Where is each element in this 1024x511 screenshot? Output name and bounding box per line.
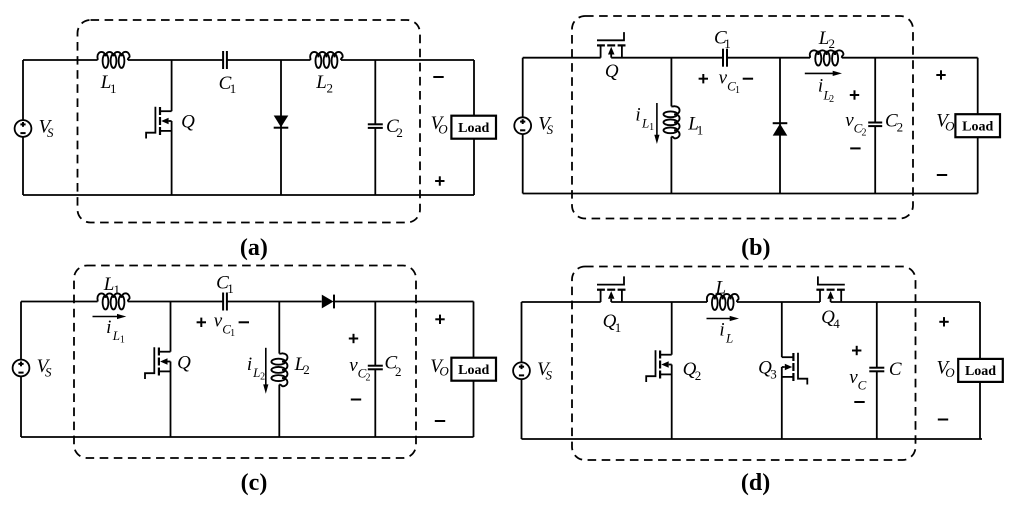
label VO (c) bbox=[430, 356, 449, 379]
label vC2 plus (b) bbox=[850, 94, 859, 96]
svg-text:1: 1 bbox=[120, 335, 125, 346]
output plus sign (a) bbox=[435, 180, 444, 182]
svg-text:1: 1 bbox=[649, 122, 654, 133]
label Q3 (d) bbox=[758, 357, 777, 381]
svg-text:i: i bbox=[719, 319, 724, 340]
bottom rail (d) bbox=[522, 438, 983, 440]
svg-text:2: 2 bbox=[366, 372, 371, 383]
bottom rail (a) bbox=[23, 194, 474, 196]
label C2 (b) bbox=[885, 111, 903, 135]
output plus sign (d) bbox=[939, 321, 948, 323]
svg-text:S: S bbox=[47, 125, 54, 140]
svg-text:i: i bbox=[106, 317, 111, 338]
label VO (b) bbox=[936, 111, 955, 134]
wire: right vertical top (b) bbox=[977, 58, 979, 114]
label vC (d) bbox=[849, 367, 866, 393]
svg-text:2: 2 bbox=[862, 127, 867, 138]
svg-text:1: 1 bbox=[724, 36, 731, 51]
svg-text:1: 1 bbox=[230, 81, 237, 96]
svg-text:(d): (d) bbox=[741, 470, 770, 496]
svg-text:(c): (c) bbox=[241, 470, 268, 496]
inductor L2 (a) bbox=[310, 52, 343, 68]
label L2 (c) bbox=[294, 354, 310, 377]
wire: top rail seg4 (a) bbox=[341, 59, 474, 61]
svg-text:(b): (b) bbox=[741, 235, 770, 261]
wire: top rail seg4 (d) bbox=[831, 301, 980, 303]
svg-text:Load: Load bbox=[965, 364, 996, 379]
svg-text:Load: Load bbox=[962, 120, 993, 135]
dashed converter boundary (c) bbox=[74, 266, 416, 459]
wire: left vertical bottom (a) bbox=[22, 137, 24, 195]
label Q (b) bbox=[605, 61, 619, 82]
wire: top rail seg4 (c) bbox=[334, 301, 474, 303]
svg-text:C: C bbox=[858, 378, 867, 393]
label Q (c) bbox=[177, 352, 191, 373]
svg-text:1: 1 bbox=[615, 320, 622, 335]
dashed converter boundary (a) bbox=[78, 20, 421, 223]
label vC plus (d) bbox=[852, 350, 861, 352]
wire: top rail seg1 (d) bbox=[522, 301, 601, 303]
svg-text:L: L bbox=[112, 328, 120, 343]
wire: top rail seg2 (b) bbox=[611, 57, 723, 59]
svg-text:L: L bbox=[818, 28, 830, 49]
wire: left vertical top (b) bbox=[522, 58, 524, 118]
svg-text:1: 1 bbox=[230, 328, 235, 339]
svg-text:L: L bbox=[315, 72, 327, 93]
label C2 (a) bbox=[386, 116, 403, 140]
label iL2 (b) bbox=[818, 75, 834, 104]
diode (b) bbox=[773, 58, 788, 194]
inductor L2 (b) bbox=[810, 50, 844, 65]
voltage source VS (d) bbox=[513, 362, 530, 379]
svg-text:L: L bbox=[725, 330, 733, 345]
label C (d) bbox=[889, 359, 902, 380]
label L1 (a) bbox=[100, 72, 117, 96]
inductor L1 vertical (b) bbox=[664, 58, 680, 194]
label VO (d) bbox=[936, 357, 955, 380]
diode (a) bbox=[274, 60, 289, 195]
label vC minus (d) bbox=[854, 401, 864, 403]
label VS (c) bbox=[37, 356, 52, 380]
svg-text:2: 2 bbox=[829, 36, 836, 51]
load box (a) bbox=[451, 116, 496, 139]
diode (c) bbox=[322, 295, 334, 309]
svg-text:Load: Load bbox=[458, 121, 489, 136]
wire: top rail seg2 (d) bbox=[611, 301, 707, 303]
wire: right vertical bottom (b) bbox=[977, 137, 979, 193]
svg-text:S: S bbox=[545, 367, 552, 382]
current arrow iL1 (c) bbox=[93, 314, 127, 319]
output plus sign (c) bbox=[435, 318, 444, 320]
svg-text:Q: Q bbox=[181, 111, 195, 132]
bottom rail (b) bbox=[523, 193, 978, 195]
wire: left vertical top (c) bbox=[20, 302, 22, 360]
wire: top rail seg3 (b) bbox=[727, 57, 810, 59]
label VS (b) bbox=[538, 114, 553, 138]
output plus sign (b) bbox=[936, 74, 945, 76]
svg-text:2: 2 bbox=[396, 125, 403, 140]
svg-text:2: 2 bbox=[395, 364, 402, 379]
label C1 (b) bbox=[714, 27, 731, 51]
capacitor C2 (a) bbox=[368, 60, 383, 195]
dashed converter boundary (d) bbox=[572, 267, 916, 461]
current arrow iL (d) bbox=[707, 316, 740, 321]
voltage source VS (c) bbox=[13, 360, 30, 377]
label VS (d) bbox=[537, 359, 552, 383]
wire: top rail seg1 (b) bbox=[523, 57, 601, 59]
label L1 (c) bbox=[103, 274, 120, 297]
svg-text:L: L bbox=[103, 274, 115, 295]
svg-text:i: i bbox=[247, 354, 252, 375]
label vC1 plus (c) bbox=[197, 321, 206, 323]
wire: top rail seg3 (d) bbox=[737, 301, 820, 303]
svg-text:O: O bbox=[438, 122, 448, 137]
wire: top rail seg3 (c) bbox=[227, 301, 322, 303]
load box (d) bbox=[958, 359, 1003, 382]
label Q2 (d) bbox=[683, 359, 702, 383]
label Q4 (d) bbox=[821, 307, 840, 331]
capacitor C1 (c) bbox=[223, 293, 227, 311]
load box (b) bbox=[955, 114, 1000, 137]
inductor L1 (a) bbox=[97, 52, 129, 68]
wire: top rail seg2 (a) bbox=[128, 59, 223, 61]
label Q (a) bbox=[181, 111, 195, 132]
svg-text:2: 2 bbox=[897, 120, 904, 135]
label iL1 (b) bbox=[635, 104, 654, 133]
label vC2 minus (b) bbox=[850, 147, 860, 149]
svg-text:1: 1 bbox=[697, 123, 704, 138]
svg-text:1: 1 bbox=[735, 85, 740, 96]
svg-text:1: 1 bbox=[227, 281, 234, 296]
label vC1 plus (b) bbox=[699, 78, 708, 80]
transistor Q (a) bbox=[146, 60, 172, 195]
svg-text:O: O bbox=[439, 363, 449, 378]
label L2 (b) bbox=[818, 28, 835, 51]
capacitor C (d) bbox=[869, 302, 884, 439]
label VS (a) bbox=[39, 117, 54, 141]
svg-text:i: i bbox=[818, 75, 823, 96]
wire: right vertical top (a) bbox=[473, 60, 475, 116]
voltage source VS (a) bbox=[15, 120, 32, 137]
wire: top rail seg3 (a) bbox=[227, 59, 311, 61]
output minus sign (b) bbox=[937, 174, 947, 176]
wire: right vertical bottom (c) bbox=[473, 381, 475, 437]
wire: top rail seg4 (b) bbox=[842, 57, 978, 59]
wire: top rail seg1 (a) bbox=[23, 59, 98, 61]
bottom rail (c) bbox=[21, 436, 474, 438]
wire: left vertical top (a) bbox=[22, 60, 24, 120]
transistor Q1 (d) bbox=[597, 276, 626, 302]
label vC2 (b) bbox=[845, 110, 866, 138]
transistor Q2 (d) bbox=[646, 302, 672, 439]
label C1 (c) bbox=[216, 273, 234, 296]
output minus sign (a) bbox=[433, 76, 443, 78]
svg-text:2: 2 bbox=[695, 368, 702, 383]
svg-text:S: S bbox=[45, 365, 52, 380]
current arrow iL2 (b) bbox=[805, 71, 842, 76]
transistor Q (b) bbox=[597, 32, 626, 58]
inductor L (d) bbox=[707, 294, 739, 310]
label C1 (a) bbox=[219, 73, 237, 96]
capacitor C1 (a) bbox=[223, 51, 227, 69]
label C2 (c) bbox=[385, 352, 402, 379]
wire: right vertical top (c) bbox=[473, 302, 475, 358]
svg-text:O: O bbox=[945, 365, 955, 380]
svg-text:S: S bbox=[547, 122, 554, 137]
svg-text:Q: Q bbox=[177, 352, 191, 373]
wire: right vertical bottom (d) bbox=[979, 382, 981, 439]
transistor Q4 (d) bbox=[816, 276, 844, 302]
wire: left vertical top (d) bbox=[521, 302, 523, 362]
label Q1 (d) bbox=[603, 311, 622, 335]
svg-text:(a): (a) bbox=[240, 235, 268, 261]
capacitor C2 (b) bbox=[868, 58, 882, 194]
label iL (d) bbox=[719, 319, 733, 345]
wire: top rail seg1 (c) bbox=[21, 301, 98, 303]
transistor Q (c) bbox=[145, 302, 171, 438]
wire: left vertical bottom (b) bbox=[522, 134, 524, 193]
label vC2 minus (c) bbox=[351, 399, 361, 401]
svg-text:C: C bbox=[889, 359, 902, 380]
svg-text:2: 2 bbox=[326, 81, 333, 96]
capacitor C2 (c) bbox=[368, 302, 383, 438]
label iL1 (c) bbox=[106, 317, 125, 346]
load box (c) bbox=[451, 358, 496, 381]
svg-text:2: 2 bbox=[303, 362, 310, 377]
svg-text:Q: Q bbox=[605, 61, 619, 82]
svg-text:3: 3 bbox=[770, 366, 777, 381]
voltage source VS (b) bbox=[514, 117, 531, 134]
svg-text:1: 1 bbox=[114, 282, 121, 297]
wire: right vertical top (d) bbox=[979, 302, 981, 359]
current arrow iL1 (b) bbox=[654, 103, 659, 144]
label vC1 minus (b) bbox=[743, 78, 753, 80]
output minus sign (c) bbox=[435, 420, 445, 422]
current arrow iL2 (c) bbox=[263, 348, 268, 394]
label vC1 minus (c) bbox=[239, 321, 249, 323]
label vC1 (b) bbox=[719, 67, 740, 95]
svg-text:Load: Load bbox=[458, 363, 489, 378]
label vC1 (c) bbox=[214, 310, 235, 339]
output minus sign (d) bbox=[938, 419, 948, 421]
label VO (a) bbox=[431, 113, 449, 137]
label L2 (a) bbox=[315, 72, 333, 96]
wire: left vertical bottom (d) bbox=[521, 379, 523, 439]
dashed converter boundary (b) bbox=[572, 16, 913, 219]
wire: right vertical bottom (a) bbox=[473, 139, 475, 195]
capacitor C1 (b) bbox=[723, 49, 727, 67]
wire: left vertical bottom (c) bbox=[20, 376, 22, 437]
svg-text:4: 4 bbox=[833, 316, 840, 331]
inductor L1 (c) bbox=[97, 293, 129, 309]
transistor Q3 (d) bbox=[782, 302, 808, 439]
wire: top rail seg2 (c) bbox=[128, 301, 223, 303]
label vC2 plus (c) bbox=[349, 338, 358, 340]
label L (d) bbox=[715, 277, 727, 298]
svg-text:2: 2 bbox=[829, 94, 834, 105]
svg-text:L: L bbox=[641, 115, 649, 130]
svg-text:i: i bbox=[635, 104, 640, 125]
svg-text:L: L bbox=[715, 277, 727, 298]
inductor L2 vertical (c) bbox=[271, 302, 287, 438]
label vC2 (c) bbox=[349, 355, 370, 383]
svg-text:O: O bbox=[945, 119, 955, 134]
svg-text:2: 2 bbox=[260, 372, 265, 383]
label L1 (b) bbox=[687, 114, 703, 138]
svg-text:1: 1 bbox=[110, 81, 117, 96]
label iL2 (c) bbox=[247, 354, 265, 383]
